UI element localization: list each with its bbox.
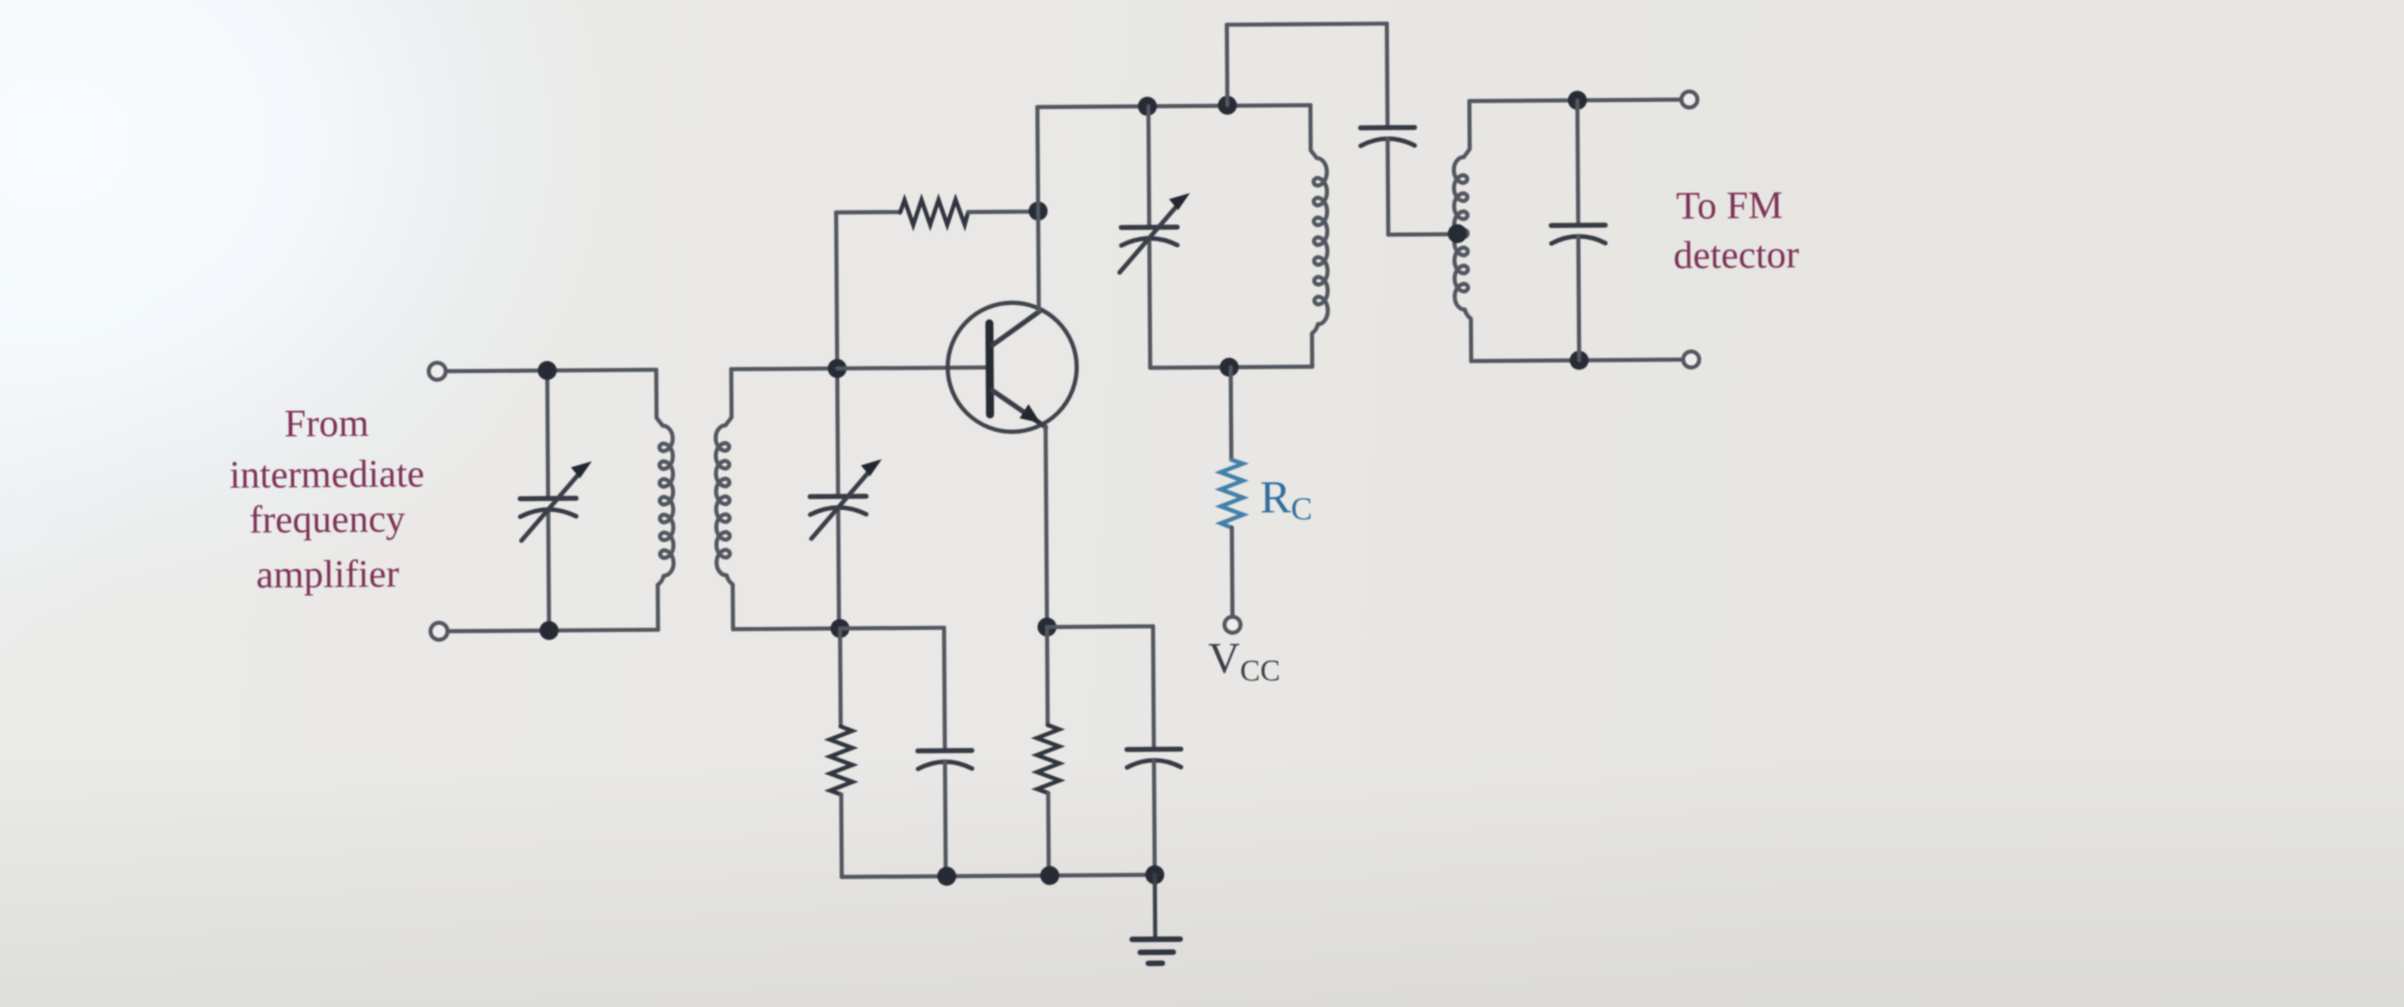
node emitter bias — [1037, 617, 1056, 636]
svg-text:To FM: To FM — [1676, 184, 1783, 228]
wire top bridge — [1227, 24, 1387, 25]
capacitor C2 (variable) lower lead — [836, 508, 841, 628]
input terminal top — [429, 363, 446, 380]
wire tank bottom — [1150, 367, 1312, 368]
wire RC to Vcc terminal — [1230, 528, 1235, 617]
wire output bottom rail — [1471, 360, 1691, 362]
resistor R3 zigzag — [1037, 725, 1060, 793]
label VCC — [1208, 633, 1280, 688]
node L4 center tap — [1448, 224, 1467, 243]
node input top junction — [538, 361, 557, 380]
transistor Q1 emitter arrowhead — [1019, 404, 1040, 423]
capacitor C4 bottom lead — [1386, 139, 1391, 235]
capacitor C3 (variable) top lead — [1146, 106, 1151, 227]
svg-text:intermediate: intermediate — [229, 452, 424, 496]
capacitor C2 plates — [810, 494, 866, 499]
capacitor C7 bottom lead — [1152, 760, 1157, 874]
capacitor C6 plates — [918, 748, 972, 753]
wire top rail — [1037, 105, 1310, 107]
node bottom rail mid — [1040, 866, 1059, 885]
node base junction — [828, 359, 847, 378]
wire L2 bottom to bias node — [733, 626, 840, 631]
inductor L3 (collector tank) — [1310, 105, 1328, 367]
wire L2 top to base node — [731, 366, 837, 371]
capacitor C3 arrow — [1119, 201, 1181, 272]
wire bias left horizontal — [840, 626, 944, 631]
label From intermediate frequency amplifier — [229, 401, 425, 596]
capacitor C6 top lead — [942, 628, 947, 751]
inductor L4 (output, center-tapped) — [1453, 101, 1471, 361]
transistor Q1 collector diagonal — [992, 311, 1040, 345]
wire bottom rail — [842, 875, 1155, 877]
wire bias right horizontal — [1047, 624, 1153, 629]
input terminal bottom — [430, 623, 447, 640]
capacitor C3 plates — [1121, 225, 1177, 230]
node feedback/collector junction — [1029, 202, 1048, 221]
wire collector vertical — [1037, 107, 1038, 311]
inductor L1 (primary of T1) — [656, 370, 674, 630]
svg-text:From: From — [284, 402, 369, 446]
capacitor C3 bottom lead — [1147, 238, 1152, 367]
svg-text:amplifier: amplifier — [256, 553, 399, 597]
resistor R2 zigzag — [830, 726, 853, 794]
wire output top rail — [1469, 100, 1689, 102]
svg-text:frequency: frequency — [249, 497, 406, 541]
wire coupling to tap — [1388, 232, 1457, 237]
node output top — [1568, 91, 1587, 110]
node output bottom — [1570, 351, 1589, 370]
capacitor C6 bottom lead — [943, 762, 948, 876]
inductor L2 (secondary of T1) — [715, 369, 733, 629]
resistor RC lead top — [1229, 367, 1234, 459]
capacitor C1 arrow — [521, 469, 583, 540]
node bottom rail left — [937, 867, 956, 886]
Vcc terminal circle — [1224, 617, 1240, 633]
node base bias — [830, 619, 849, 638]
capacitor C2 arrow — [811, 467, 873, 538]
label RC — [1260, 471, 1312, 526]
node input bottom junction — [539, 621, 558, 640]
resistor R3 top lead — [1045, 627, 1050, 725]
wire input top — [446, 370, 656, 371]
resistor R2 top lead — [838, 628, 843, 726]
wire feedback top left — [836, 210, 900, 215]
ground stub — [1153, 875, 1158, 938]
resistor R3 bottom lead — [1046, 793, 1051, 875]
wire riser to bridge — [1225, 25, 1230, 105]
capacitor C5 top lead — [1575, 100, 1580, 225]
label To FM detector — [1673, 184, 1799, 277]
capacitor C7 top lead — [1151, 626, 1156, 749]
node tank bottom — [1220, 358, 1239, 377]
node top rail / C3 — [1138, 97, 1157, 116]
svg-text:VCC: VCC — [1208, 633, 1280, 688]
resistor R1 feedback zigzag — [900, 200, 968, 225]
capacitor C1 plates — [520, 496, 576, 501]
capacitor C4 (coupling) top lead — [1385, 24, 1390, 128]
wire emitter vertical — [1046, 427, 1047, 627]
node bottom rail right — [1145, 865, 1164, 884]
ground symbol — [1132, 939, 1180, 963]
node top rail / riser — [1218, 96, 1237, 115]
wire base node vertical upper — [836, 212, 838, 496]
wire feedback top right — [968, 210, 1038, 215]
output terminal bottom — [1683, 351, 1699, 367]
capacitor C5 bottom lead — [1576, 236, 1581, 360]
transistor Q1 circle — [947, 302, 1077, 432]
wire base to transistor — [837, 367, 986, 368]
wire input bottom — [448, 630, 658, 631]
transistor Q1 base bar — [985, 323, 994, 414]
svg-text:RC: RC — [1260, 471, 1312, 526]
output terminal top — [1681, 91, 1697, 107]
svg-text:detector: detector — [1673, 233, 1799, 277]
capacitor C4 plates — [1361, 125, 1415, 130]
resistor R2 bottom lead — [839, 794, 844, 876]
transistor Q1 emitter diagonal — [992, 390, 1045, 427]
capacitor C7 plates — [1127, 747, 1181, 752]
resistor RC zigzag (blue) — [1220, 460, 1243, 528]
capacitor C5 plates — [1551, 223, 1605, 228]
capacitor C1 (variable) vertical leads — [547, 371, 549, 631]
